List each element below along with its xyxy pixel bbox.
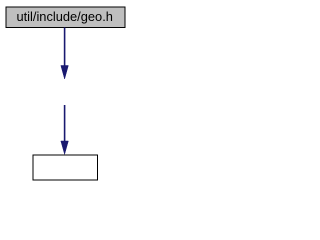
svg-text:util/include/geo.h: util/include/geo.h	[16, 9, 113, 24]
node util/include/geo.h	[6, 7, 125, 28]
edge wire 2 (from middle node to bottom node)	[61, 105, 69, 154]
node (bottom, unlabeled white box)	[33, 155, 98, 180]
edge wire 1 (from geo.h to middle node)	[61, 28, 69, 80]
